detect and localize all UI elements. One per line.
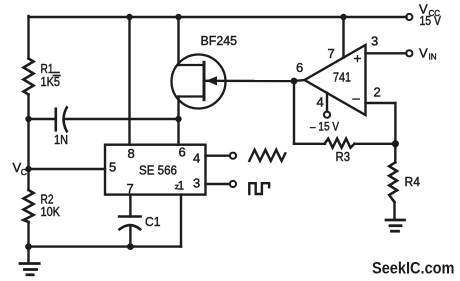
wire JFET drain to top rail	[177, 17, 179, 65]
svg-text:6: 6	[179, 145, 186, 160]
svg-text:BF245: BF245	[201, 33, 238, 48]
svg-text:V: V	[419, 46, 428, 61]
resistor R4	[389, 162, 397, 202]
label pin 2	[374, 85, 381, 100]
svg-text:3: 3	[371, 34, 378, 49]
IC U2 SE 566 box	[105, 145, 206, 195]
label SE 566	[139, 163, 177, 178]
wire pin 8 drop	[128, 17, 130, 145]
label pin 5	[109, 160, 116, 175]
label pin 4 out	[193, 151, 200, 166]
wire capacitor left lead	[29, 118, 56, 120]
icon triangle wave	[249, 150, 285, 161]
wire bottom rail	[29, 245, 182, 247]
capacitor 1N	[56, 108, 67, 132]
svg-text:4: 4	[193, 151, 200, 166]
wire pin 7	[342, 17, 344, 58]
label BF245	[201, 33, 238, 48]
wire left rail between cap node and Vc node	[27, 119, 29, 169]
wire R4 bottom lead	[393, 202, 395, 220]
watermark SeekIC.com	[372, 259, 455, 278]
wire R4 top lead	[394, 144, 397, 163]
node C1 bottom	[127, 243, 134, 250]
svg-text:R4: R4	[405, 174, 421, 189]
resistor R2	[24, 190, 34, 222]
label minus 15 V	[310, 120, 339, 134]
gate arrowhead	[206, 76, 217, 85]
label 10K	[41, 204, 61, 219]
label pin 1	[175, 181, 184, 193]
label R3	[336, 149, 351, 164]
wire apex to node 6	[294, 80, 305, 81]
node top rail JFET drain	[175, 14, 181, 20]
svg-text:C1: C1	[145, 214, 161, 229]
icon square wave	[249, 183, 269, 194]
svg-text:SE 566: SE 566	[139, 163, 177, 178]
node top rail pin8	[126, 14, 132, 20]
label Vc	[13, 160, 27, 177]
wire pin 2 horizontal	[366, 102, 396, 104]
svg-text:C: C	[21, 167, 27, 177]
wire C1 to bottom rail	[129, 226, 131, 247]
node feedback	[392, 140, 399, 147]
label R2	[41, 192, 54, 207]
wire left rail between R1 and capacitor node	[27, 95, 29, 120]
wire pin 1 drop	[180, 195, 182, 247]
capacitor C1	[119, 217, 141, 230]
resistor R3	[325, 139, 355, 148]
svg-text:3: 3	[193, 176, 200, 191]
wire pin 7 to C1	[129, 195, 131, 217]
ground right	[386, 220, 405, 231]
svg-text:4: 4	[317, 95, 324, 110]
terminal Vcc	[406, 14, 412, 20]
label R1	[41, 61, 60, 76]
wire JFET source down to pin 6	[177, 97, 179, 145]
wire left rail bottom	[27, 222, 29, 247]
terminal minus 15 V	[324, 112, 330, 118]
wire node 6 drop	[293, 81, 295, 144]
svg-text:–: –	[353, 91, 361, 106]
label pin 6	[179, 145, 186, 160]
wire pin 4	[326, 93, 328, 112]
svg-text:1: 1	[178, 181, 184, 193]
terminal pin 3 output	[230, 181, 236, 187]
label pin 4	[317, 95, 324, 110]
svg-text:+: +	[354, 51, 362, 66]
label Vin	[419, 46, 437, 62]
label Vcc	[419, 2, 440, 19]
label pin 8	[128, 146, 135, 161]
label minus input	[353, 91, 361, 106]
wire R3 right lead	[354, 143, 395, 145]
svg-text:2: 2	[374, 85, 381, 100]
wire ground stub left	[27, 247, 29, 263]
wire pin 3 output lead	[206, 183, 230, 185]
svg-text:15 V: 15 V	[420, 14, 442, 28]
terminal Vin	[406, 50, 412, 56]
svg-text:SeekIC.com: SeekIC.com	[372, 259, 455, 278]
label pin 7	[328, 46, 335, 61]
wire capacitor right lead to JFET source column	[64, 118, 179, 120]
wire top supply rail	[29, 16, 407, 18]
svg-text:IN: IN	[429, 53, 437, 62]
svg-text:1N: 1N	[54, 133, 68, 147]
svg-text:7: 7	[328, 46, 335, 61]
label pin 3	[371, 34, 378, 49]
svg-text:5: 5	[109, 160, 116, 175]
svg-text:6: 6	[296, 60, 303, 75]
label pin 3 out	[193, 176, 200, 191]
label R4	[405, 174, 421, 189]
node capacitor tap	[25, 116, 31, 122]
transistor Q1 BF245	[172, 55, 226, 109]
wire pin 3 output	[366, 52, 407, 54]
node op-amp pin 7	[340, 14, 346, 20]
label 1K5	[41, 74, 61, 89]
wire left rail upper (Vcc to R1)	[27, 16, 29, 59]
node bottom left	[25, 243, 32, 250]
svg-text:8: 8	[128, 146, 135, 161]
svg-text:R3: R3	[336, 149, 351, 164]
svg-text:10K: 10K	[41, 204, 61, 219]
svg-text:– 15 V: – 15 V	[310, 120, 339, 134]
label C1	[145, 214, 161, 229]
terminal pin 4 output	[230, 153, 236, 159]
ground left	[20, 264, 39, 275]
label node 6	[296, 60, 303, 75]
wire gate lead	[206, 80, 294, 83]
label pin 7	[127, 181, 134, 196]
node 6 input	[291, 78, 298, 85]
svg-text:741: 741	[333, 70, 351, 85]
node source column at capacitor wire	[175, 116, 181, 122]
node Vc	[25, 166, 31, 172]
wire Vc to pin 5	[29, 168, 106, 170]
label 15 V	[420, 14, 442, 28]
wire pin 4 output lead	[206, 154, 230, 156]
wire R3 left lead	[294, 143, 325, 145]
label plus input	[354, 51, 362, 66]
label 1N	[54, 133, 68, 147]
wire pin 2 vertical to feedback node	[394, 103, 396, 144]
resistor R1	[24, 59, 34, 95]
op-amp U1 741	[305, 45, 366, 115]
wire left rail between Vc and R2	[27, 169, 29, 190]
label 741	[333, 70, 351, 85]
